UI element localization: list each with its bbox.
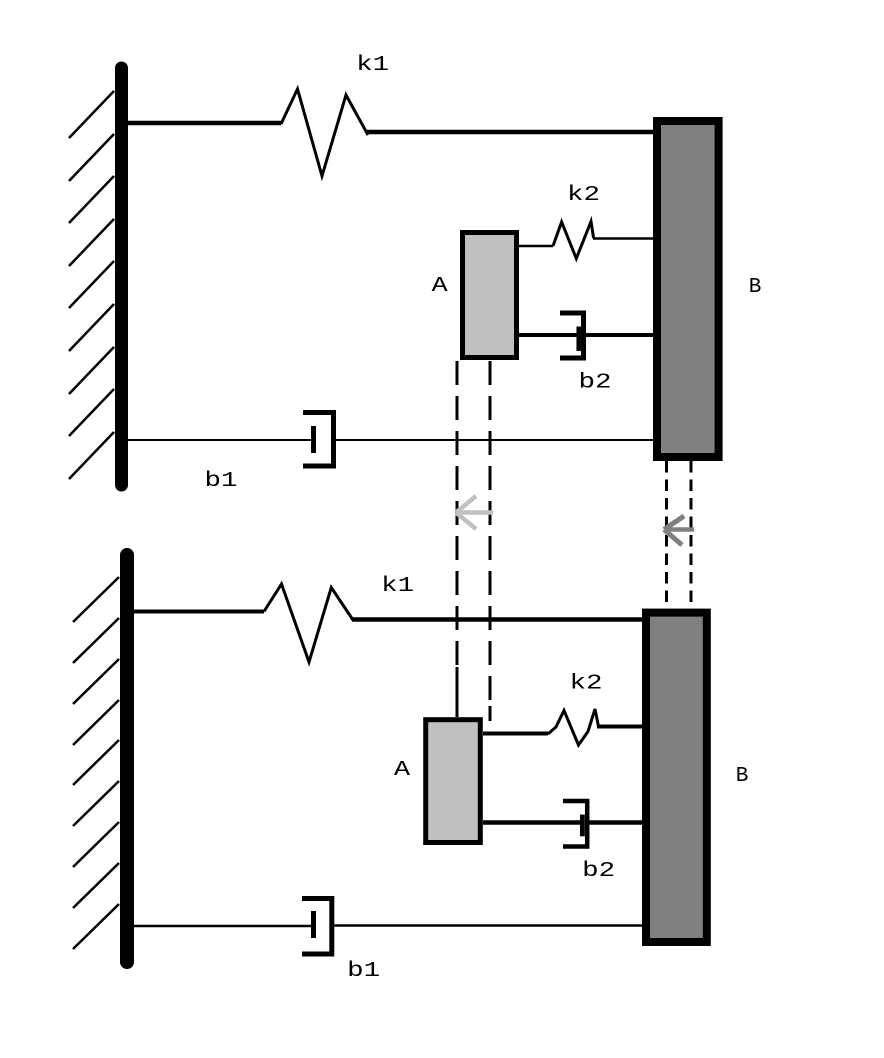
svg-text:b2: b2 [579, 372, 612, 395]
svg-text:k1: k1 [381, 575, 414, 598]
svg-text:A: A [432, 275, 448, 298]
svg-text:b1: b1 [347, 960, 380, 983]
svg-text:B: B [736, 765, 749, 788]
svg-text:A: A [394, 759, 410, 782]
svg-text:b1: b1 [205, 470, 238, 493]
svg-text:k1: k1 [356, 54, 389, 77]
svg-text:b2: b2 [582, 860, 615, 883]
svg-text:k2: k2 [570, 673, 603, 696]
svg-text:k2: k2 [567, 184, 600, 207]
svg-text:B: B [749, 276, 762, 299]
